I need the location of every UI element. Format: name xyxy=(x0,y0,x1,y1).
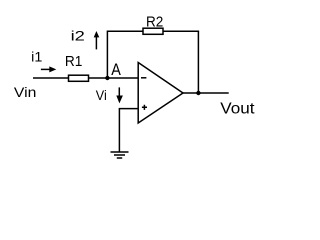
resistor R1 xyxy=(69,75,89,81)
wire R1 to node A xyxy=(89,77,108,79)
svg-text:i1: i1 xyxy=(31,49,42,65)
svg-text:R2: R2 xyxy=(146,13,163,30)
svg-text:i2: i2 xyxy=(71,28,86,44)
op-amp U1 triangle xyxy=(138,63,183,124)
current arrow i2 xyxy=(94,31,100,49)
current arrow i1 xyxy=(41,66,56,72)
ground xyxy=(111,152,129,158)
node A junction dot xyxy=(105,76,109,80)
svg-text:A: A xyxy=(111,60,121,79)
wire feedback top left xyxy=(107,30,143,32)
wire node A to op-amp inverting input xyxy=(107,77,138,79)
output junction dot xyxy=(196,91,200,95)
svg-text:Vi: Vi xyxy=(96,87,107,103)
op-amp plus sign xyxy=(142,105,147,110)
svg-text:Vin: Vin xyxy=(14,84,37,100)
wire op-amp output xyxy=(183,92,229,94)
wire Vin to R1 xyxy=(33,77,69,79)
wire node A up to feedback xyxy=(106,31,108,79)
wire feedback top right xyxy=(163,30,199,32)
op-amp minus sign xyxy=(141,77,146,79)
wire feedback down to output xyxy=(197,31,199,93)
svg-text:R1: R1 xyxy=(65,53,83,70)
svg-text:Vout: Vout xyxy=(220,100,255,117)
resistor R2 xyxy=(143,28,163,34)
wire op-amp noninverting input xyxy=(119,108,139,110)
voltage arrow Vi xyxy=(116,87,123,103)
wire noninverting input down to ground xyxy=(118,109,120,152)
